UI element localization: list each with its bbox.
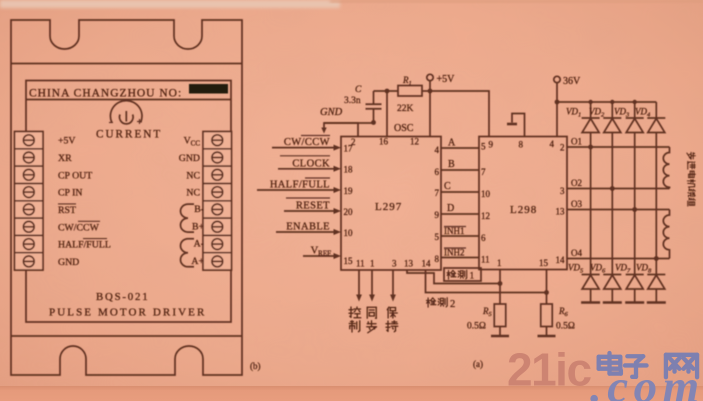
svg-text:4: 4 bbox=[550, 139, 555, 149]
svg-text:13: 13 bbox=[404, 259, 414, 269]
svg-text:PULSE MOTOR DRIVER: PULSE MOTOR DRIVER bbox=[49, 307, 206, 319]
svg-text:CP OUT: CP OUT bbox=[58, 170, 92, 181]
svg-text:B+: B+ bbox=[192, 221, 205, 232]
svg-text:OSC: OSC bbox=[394, 123, 414, 134]
svg-text:BQS-021: BQS-021 bbox=[96, 291, 149, 303]
svg-text:13: 13 bbox=[556, 207, 566, 217]
svg-text:O2: O2 bbox=[571, 178, 582, 188]
svg-text:20: 20 bbox=[344, 207, 354, 217]
svg-text:RST: RST bbox=[58, 205, 76, 216]
svg-text:22K: 22K bbox=[397, 104, 414, 114]
svg-text:CLOCK: CLOCK bbox=[292, 158, 330, 169]
svg-text:O4: O4 bbox=[571, 248, 582, 258]
svg-text:11: 11 bbox=[481, 255, 490, 265]
svg-text:3: 3 bbox=[560, 186, 565, 196]
svg-text:2: 2 bbox=[351, 137, 356, 147]
svg-text:+5V: +5V bbox=[437, 74, 456, 85]
svg-text:0.5Ω: 0.5Ω bbox=[556, 322, 575, 332]
svg-text:10: 10 bbox=[481, 189, 491, 199]
svg-text:14: 14 bbox=[422, 259, 432, 269]
svg-text:18: 18 bbox=[344, 165, 354, 175]
svg-text:3.3n: 3.3n bbox=[344, 96, 361, 106]
svg-text:A+: A+ bbox=[191, 256, 204, 267]
svg-text:2: 2 bbox=[450, 299, 455, 310]
svg-text:3: 3 bbox=[392, 259, 397, 269]
svg-text:2: 2 bbox=[560, 143, 565, 153]
svg-text:9: 9 bbox=[435, 210, 440, 220]
svg-text:10: 10 bbox=[344, 228, 354, 238]
svg-text:RESET: RESET bbox=[296, 201, 330, 212]
svg-text:6: 6 bbox=[435, 167, 440, 177]
svg-text:16: 16 bbox=[379, 137, 389, 147]
svg-text:CW/CCW: CW/CCW bbox=[284, 137, 330, 148]
svg-text:9: 9 bbox=[489, 140, 494, 150]
svg-text:36V: 36V bbox=[563, 76, 581, 87]
svg-text:8: 8 bbox=[519, 140, 524, 150]
svg-text:4: 4 bbox=[435, 145, 440, 155]
svg-text:O3: O3 bbox=[571, 199, 582, 209]
svg-text:NC: NC bbox=[186, 170, 200, 181]
svg-text:CHINA CHANGZHOU NO:: CHINA CHANGZHOU NO: bbox=[29, 88, 182, 100]
svg-text:D: D bbox=[447, 203, 454, 214]
svg-text:GND: GND bbox=[179, 153, 200, 164]
svg-text:19: 19 bbox=[344, 186, 354, 196]
svg-text:1: 1 bbox=[470, 272, 475, 282]
svg-text:INH1: INH1 bbox=[444, 226, 465, 236]
svg-text:6: 6 bbox=[481, 233, 486, 243]
svg-text:A: A bbox=[448, 138, 456, 149]
svg-text:1: 1 bbox=[497, 258, 502, 268]
svg-text:CW/CCW: CW/CCW bbox=[58, 222, 100, 233]
svg-text:0.5Ω: 0.5Ω bbox=[467, 322, 486, 332]
svg-text:5: 5 bbox=[435, 232, 440, 242]
svg-text:GND: GND bbox=[58, 257, 79, 268]
svg-text:11: 11 bbox=[356, 259, 365, 269]
svg-text:ENABLE: ENABLE bbox=[286, 222, 330, 233]
svg-text:+5V: +5V bbox=[58, 136, 76, 147]
svg-text:L298: L298 bbox=[510, 204, 537, 216]
svg-text:12: 12 bbox=[481, 211, 490, 221]
svg-text:14: 14 bbox=[556, 255, 566, 265]
svg-text:CP IN: CP IN bbox=[58, 188, 82, 199]
svg-text:HALF/FULL: HALF/FULL bbox=[270, 180, 330, 191]
svg-text:(a): (a) bbox=[473, 359, 483, 369]
svg-text:O1: O1 bbox=[571, 137, 582, 147]
svg-text:15: 15 bbox=[539, 258, 549, 268]
svg-text:C: C bbox=[355, 85, 362, 95]
svg-text:L297: L297 bbox=[375, 201, 402, 213]
svg-text:C: C bbox=[444, 181, 451, 192]
svg-text:(b): (b) bbox=[250, 361, 261, 371]
svg-text:1: 1 bbox=[370, 259, 375, 269]
svg-text:XR: XR bbox=[58, 153, 72, 164]
svg-text:15: 15 bbox=[344, 256, 354, 266]
svg-text:21ic: 21ic bbox=[507, 344, 591, 396]
svg-text:7: 7 bbox=[481, 167, 486, 177]
svg-text:5: 5 bbox=[481, 142, 486, 152]
svg-text:B: B bbox=[448, 159, 455, 170]
svg-text:B-: B- bbox=[194, 204, 204, 215]
svg-text:.com: .com bbox=[590, 361, 703, 401]
svg-text:NC: NC bbox=[186, 188, 200, 199]
svg-text:A-: A- bbox=[194, 239, 204, 250]
svg-text:CURRENT: CURRENT bbox=[96, 129, 162, 141]
svg-text:GND: GND bbox=[320, 107, 343, 118]
svg-text:HALF/FULL: HALF/FULL bbox=[58, 240, 111, 251]
svg-text:8: 8 bbox=[435, 254, 440, 264]
svg-text:INH2: INH2 bbox=[444, 248, 465, 258]
svg-text:7: 7 bbox=[435, 188, 440, 198]
svg-text:12: 12 bbox=[410, 137, 419, 147]
